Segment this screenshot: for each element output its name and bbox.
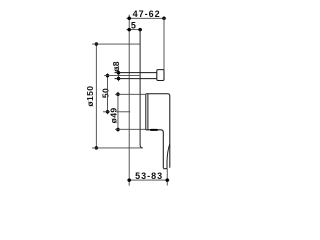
supply pipe top line	[115, 72, 157, 74]
dimension phi8 bottom dot	[117, 77, 121, 81]
dimension 5 right dot	[138, 28, 142, 32]
pipe connector box	[157, 70, 164, 81]
svg-text:ø150: ø150	[85, 86, 95, 107]
dimension 47-62 right dot	[162, 17, 166, 21]
dimension 53-83 right dot	[166, 178, 170, 182]
extension line to pipe end	[163, 18, 165, 69]
phi150 bottom extension line	[92, 147, 143, 149]
svg-text:50: 50	[100, 88, 110, 98]
valve sleeve front line V2 with bottom curve	[140, 30, 143, 148]
dimension 53-83 left dot	[128, 178, 132, 182]
handle grip top edge and lever outer edge	[146, 130, 164, 168]
dimension 50 bottom dot	[106, 110, 110, 114]
extension line below lever	[166, 169, 168, 186]
svg-text:ø8: ø8	[111, 61, 121, 72]
svg-text:ø49: ø49	[109, 107, 119, 123]
svg-text:53-83: 53-83	[135, 171, 163, 181]
dimension phi49 line	[117, 92, 119, 132]
svg-text:5: 5	[131, 20, 137, 30]
phi49 bottom extension line	[115, 128, 146, 130]
dimension 50 line	[107, 73, 109, 114]
phi150 top extension line	[92, 43, 140, 45]
wall extension line V1	[128, 15, 130, 186]
sleeve second line V3	[145, 94, 147, 130]
valve centreline extension left part	[103, 111, 110, 113]
dimension phi49 bottom dot	[116, 128, 120, 132]
dimension phi150 bottom dot	[95, 146, 99, 150]
lever bottom edge	[163, 168, 167, 170]
lever inner edge	[167, 144, 170, 169]
trim plate front edge	[147, 94, 149, 130]
dimension 47-62 line	[127, 17, 166, 19]
dimension phi8 top dot	[117, 71, 121, 75]
dimension 5 line	[127, 29, 143, 31]
dimension 47-62 left dot	[127, 17, 131, 21]
dimension 53-83 line	[127, 179, 169, 181]
dimension phi150 top dot	[95, 42, 99, 46]
dimension phi8 line	[118, 66, 120, 81]
dimension phi150 line	[95, 44, 97, 148]
handle pivot bump	[151, 129, 157, 131]
trim plate top and right edge	[146, 94, 170, 168]
supply pipe bottom line	[115, 78, 157, 80]
svg-text:47-62: 47-62	[133, 9, 161, 19]
valve centreline extension right part	[116, 111, 130, 113]
phi49 top extension line	[115, 93, 146, 95]
dimension 5 left dot	[127, 28, 131, 32]
dimension 50 top dot	[106, 74, 110, 78]
pipe centreline extension	[104, 75, 139, 77]
dimension phi49 top dot	[116, 93, 120, 97]
